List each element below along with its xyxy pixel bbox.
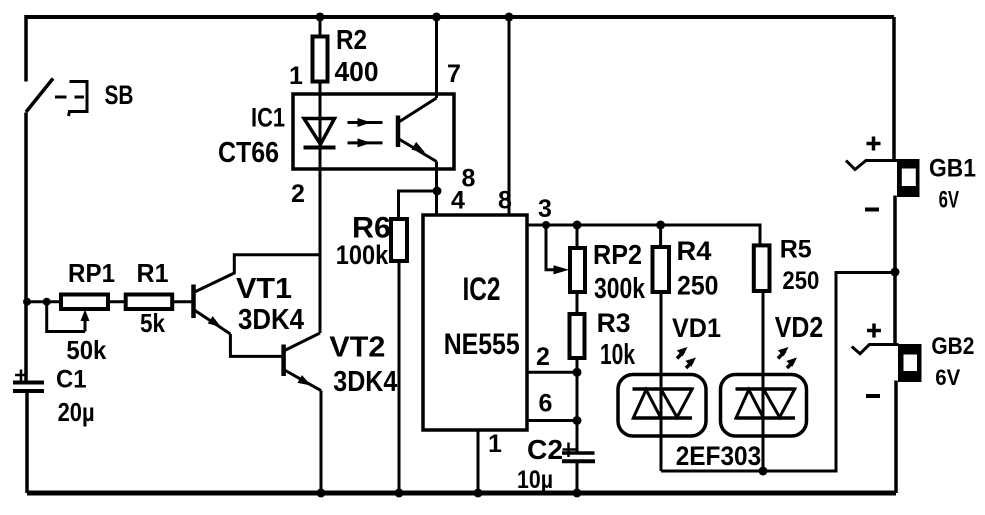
svg-text:R3: R3 [597, 308, 631, 338]
svg-text:6V: 6V [935, 365, 960, 390]
svg-text:1: 1 [289, 62, 303, 90]
svg-text:SB: SB [105, 80, 134, 110]
svg-text:2: 2 [291, 180, 305, 208]
svg-text:R4: R4 [677, 236, 712, 266]
svg-text:8: 8 [498, 187, 512, 215]
svg-text:3DK4: 3DK4 [333, 366, 397, 398]
svg-text:R2: R2 [336, 24, 367, 55]
svg-text:IC1: IC1 [251, 102, 285, 132]
svg-text:6V: 6V [939, 187, 960, 214]
svg-text:5k: 5k [140, 308, 165, 338]
svg-text:2EF303: 2EF303 [676, 441, 762, 471]
svg-text:NE555: NE555 [444, 328, 520, 361]
svg-text:IC2: IC2 [463, 271, 501, 307]
svg-text:RP2: RP2 [593, 239, 642, 270]
svg-text:250: 250 [782, 267, 819, 295]
svg-text:300k: 300k [594, 273, 646, 305]
svg-text:3DK4: 3DK4 [238, 304, 304, 336]
svg-text:6: 6 [539, 390, 553, 418]
svg-text:400: 400 [335, 56, 379, 87]
svg-text:20µ: 20µ [58, 397, 95, 427]
svg-text:C2: C2 [527, 434, 563, 465]
svg-text:4: 4 [451, 187, 465, 215]
svg-text:10µ: 10µ [517, 466, 553, 494]
svg-text:GB1: GB1 [929, 155, 976, 183]
svg-text:VT1: VT1 [236, 273, 292, 305]
svg-text:R1: R1 [137, 258, 169, 288]
svg-text:2: 2 [536, 343, 550, 371]
svg-text:VT2: VT2 [329, 332, 385, 364]
svg-text:R5: R5 [780, 235, 812, 263]
svg-text:VD1: VD1 [672, 313, 721, 343]
svg-text:3: 3 [538, 195, 552, 223]
svg-text:RP1: RP1 [68, 258, 115, 288]
svg-text:CT66: CT66 [218, 137, 279, 169]
svg-text:7: 7 [447, 60, 461, 88]
svg-text:250: 250 [677, 270, 719, 300]
svg-text:GB2: GB2 [931, 333, 974, 360]
svg-text:1: 1 [488, 430, 502, 458]
svg-text:VD2: VD2 [775, 312, 824, 344]
svg-text:50k: 50k [66, 335, 106, 365]
svg-text:C1: C1 [56, 366, 87, 394]
svg-text:100k: 100k [336, 240, 389, 270]
svg-text:10k: 10k [600, 339, 636, 371]
